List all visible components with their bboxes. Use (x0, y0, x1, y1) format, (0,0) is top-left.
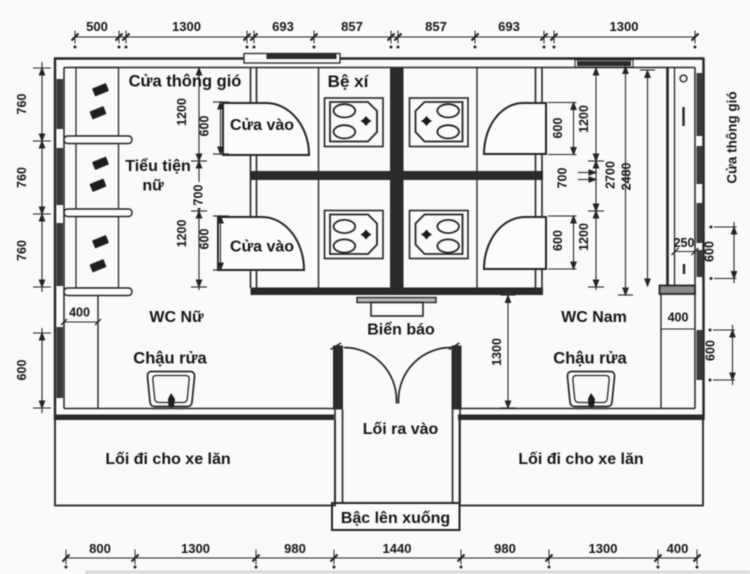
right wall window segment 5 (697, 330, 704, 380)
svg-text:Cửa thông gió: Cửa thông gió (129, 73, 242, 91)
dimension numbers rotated (15, 94, 718, 381)
urinal stall rect 3 (76, 217, 119, 289)
cubicle door bottom-left (218, 217, 304, 270)
exterior right dimension 600 lower (732, 325, 734, 385)
squat toilet fixture top-right (410, 98, 469, 147)
svg-text:600: 600 (703, 241, 717, 262)
svg-text:Chậu rửa: Chậu rửa (553, 350, 627, 368)
interior dim 2480 (647, 70, 649, 286)
top wall vent left dark band (267, 54, 337, 60)
exterior top dimension line (75, 36, 695, 38)
cubicle door top-left (223, 103, 309, 155)
svg-text:400: 400 (668, 311, 689, 325)
svg-text:Tiểu tiện: Tiểu tiện (125, 157, 191, 175)
squat toilet fixture bottom-right (410, 211, 469, 259)
svg-text:Biển báo: Biển báo (367, 321, 435, 339)
urinal partition bar 2 (64, 209, 132, 217)
svg-text:1440: 1440 (383, 541, 412, 556)
left 400 nook vertical line (97, 296, 99, 409)
squat toilet fixture top-left (325, 98, 384, 147)
top wall vent right outline (575, 60, 633, 67)
svg-text:Lối đi cho xe lăn: Lối đi cho xe lăn (518, 451, 643, 468)
sink right (Chau rua) (567, 372, 614, 410)
svg-text:800: 800 (89, 541, 111, 556)
right corridor dash symbol lower (683, 264, 685, 274)
interior dim 600 left row2 (220, 216, 222, 270)
svg-text:980: 980 (494, 541, 516, 556)
toilet block right wall outer line with door openings (541, 68, 543, 289)
svg-text:nữ: nữ (142, 178, 164, 195)
svg-text:857: 857 (425, 19, 447, 34)
toilet block left wall outer line with door openings (250, 68, 252, 289)
interior dim 600 right row1 (573, 103, 575, 155)
svg-text:1200: 1200 (577, 105, 591, 133)
urinal stall rect 1 (64, 68, 132, 296)
room and fixture labels (105, 72, 739, 527)
svg-text:Lối đi cho xe lăn: Lối đi cho xe lăn (105, 451, 230, 468)
sign board (Bien bao) mounting bar (357, 298, 436, 303)
urinal stall rect 2 (76, 144, 119, 210)
exterior right dimension 600 upper (733, 222, 735, 283)
entrance corridor wall right below (452, 410, 454, 504)
top wall vent right dark band (577, 61, 631, 66)
entrance left door swing arc (344, 348, 397, 404)
svg-text:WC Nữ: WC Nữ (149, 309, 204, 326)
svg-text:600: 600 (704, 340, 718, 361)
bottom wall thick right segment (458, 415, 704, 421)
outer wall top (54, 57, 704, 59)
svg-text:WC Nam: WC Nam (561, 309, 627, 326)
svg-text:Bệ xí: Bệ xí (328, 72, 370, 91)
entrance corridor wall left below (335, 410, 460, 504)
svg-text:600: 600 (551, 230, 565, 251)
exterior left dimension chain (760x3) (41, 62, 43, 292)
svg-text:693: 693 (498, 19, 520, 34)
svg-text:Cửa thông gió: Cửa thông gió (725, 91, 740, 183)
sign board box (371, 303, 423, 317)
dimension numbers horizontal (69, 19, 694, 556)
ramp right (Loi di cho xe lan) (460, 420, 704, 506)
svg-text:1300: 1300 (490, 338, 504, 366)
svg-text:1200: 1200 (175, 220, 189, 248)
entrance right door swing arc (399, 348, 452, 404)
toilet block mid horizontal wall (251, 171, 544, 180)
svg-text:Chậu rửa: Chậu rửa (133, 350, 207, 368)
svg-text:600: 600 (15, 360, 29, 381)
entrance jamb tick left (331, 343, 342, 350)
left wall window segment 4 (57, 327, 64, 398)
svg-text:600: 600 (551, 118, 565, 139)
svg-text:250: 250 (674, 236, 695, 250)
svg-text:760: 760 (15, 167, 29, 188)
urinal partition bar 1 (64, 136, 132, 144)
left wall window segment 1 (57, 79, 64, 129)
bottom wall thick left segment (55, 415, 334, 421)
cubicle door bottom-right (484, 217, 546, 269)
right 400 nook vertical line (660, 294, 662, 409)
exterior left dimension 600 (41, 328, 43, 413)
svg-text:693: 693 (272, 19, 294, 34)
ramp left (Loi di cho xe lan) (55, 420, 335, 506)
right corridor circle symbol (680, 75, 687, 82)
platform edge line top-left cubicle (318, 68, 320, 172)
cubicle door top-right (484, 103, 546, 154)
interior dim chain right (1200/700/1200) (595, 68, 597, 291)
entrance right jamb (door leaf) (452, 346, 462, 410)
right corridor wall line A (666, 68, 669, 286)
svg-text:857: 857 (341, 19, 363, 34)
toilet block right wall inner line with door openings (535, 68, 537, 289)
inner wall bottom left segment (64, 408, 334, 410)
platform edge line top-right cubicle (476, 68, 478, 172)
svg-text:1200: 1200 (577, 223, 591, 251)
steps box (Bac len xuong) (332, 503, 460, 530)
inner wall right (694, 68, 696, 409)
urinal partition bar 3 (64, 288, 132, 296)
svg-text:400: 400 (69, 306, 90, 320)
right corridor end bar (660, 286, 696, 295)
toilet block bottom wall (251, 288, 544, 296)
svg-text:500: 500 (86, 19, 108, 34)
platform edge line bottom-right cubicle (476, 180, 478, 288)
left wall window segment 3 (57, 223, 64, 286)
right 400 nook bottom tick line (661, 328, 695, 330)
svg-text:1200: 1200 (175, 98, 189, 126)
top wall vent left outline (244, 54, 340, 64)
right corridor wall line B (674, 68, 676, 286)
urinal symbols stall 2 (92, 156, 109, 170)
svg-text:760: 760 (15, 94, 29, 115)
inner wall top (64, 67, 695, 69)
svg-text:700: 700 (556, 168, 570, 189)
platform edge line bottom-left cubicle (318, 180, 320, 288)
svg-text:1300: 1300 (610, 19, 639, 34)
right wall window segment 3 (697, 203, 704, 243)
toilet block left wall inner line with door openings (256, 68, 258, 289)
urinal symbols stall 3 (92, 235, 109, 249)
interior dim 600 left row1 (220, 102, 222, 154)
svg-text:760: 760 (15, 240, 29, 261)
svg-text:Cửa vào: Cửa vào (230, 117, 294, 134)
svg-text:600: 600 (198, 229, 212, 250)
interior dim chain left (1200/700/1200) (198, 68, 200, 291)
exterior bottom dimension line (66, 557, 697, 559)
squat toilet fixture bottom-left (325, 211, 384, 259)
svg-text:1300: 1300 (181, 541, 210, 556)
right corridor dash symbol upper (682, 107, 684, 126)
inner wall left (63, 68, 65, 409)
svg-text:400: 400 (667, 541, 689, 556)
svg-text:980: 980 (284, 541, 306, 556)
right wall window segment 1 (697, 73, 704, 136)
toilet block central vertical wall (390, 68, 404, 296)
outer wall left (54, 58, 56, 421)
interior dim 600 right row2 (573, 216, 575, 269)
left 400 nook bottom tick line (64, 321, 98, 323)
svg-text:Lối ra vào: Lối ra vào (363, 421, 439, 438)
svg-text:Cửa vào: Cửa vào (230, 239, 294, 256)
entrance left jamb (door leaf) (333, 346, 343, 410)
entrance jamb tick right (449, 343, 460, 350)
svg-text:Bậc lên xuống: Bậc lên xuống (341, 510, 450, 527)
left wall window segment 2 (57, 148, 64, 205)
svg-text:600: 600 (198, 116, 212, 137)
mid-wall pointer arrows right (578, 172, 594, 174)
svg-text:2700: 2700 (604, 161, 618, 189)
interior dim 1300 (front of entrance) (507, 295, 509, 408)
right wall window segment 2 (697, 146, 704, 184)
inner wall bottom right segment (458, 408, 695, 410)
svg-text:2480: 2480 (620, 163, 634, 191)
sink left (Chau rua) (147, 372, 194, 410)
interior dim 250 (right shaft) (675, 251, 695, 253)
interior dim 2700 (625, 66, 627, 295)
outer wall right (702, 58, 704, 421)
svg-text:1300: 1300 (589, 541, 618, 556)
right wall window segment 4 (697, 250, 704, 277)
svg-text:1300: 1300 (172, 19, 201, 34)
white backgrounds for rotated dim texts on lines (197, 182, 209, 208)
urinal symbols stall 1 (89, 83, 109, 273)
svg-text:700: 700 (192, 185, 206, 206)
